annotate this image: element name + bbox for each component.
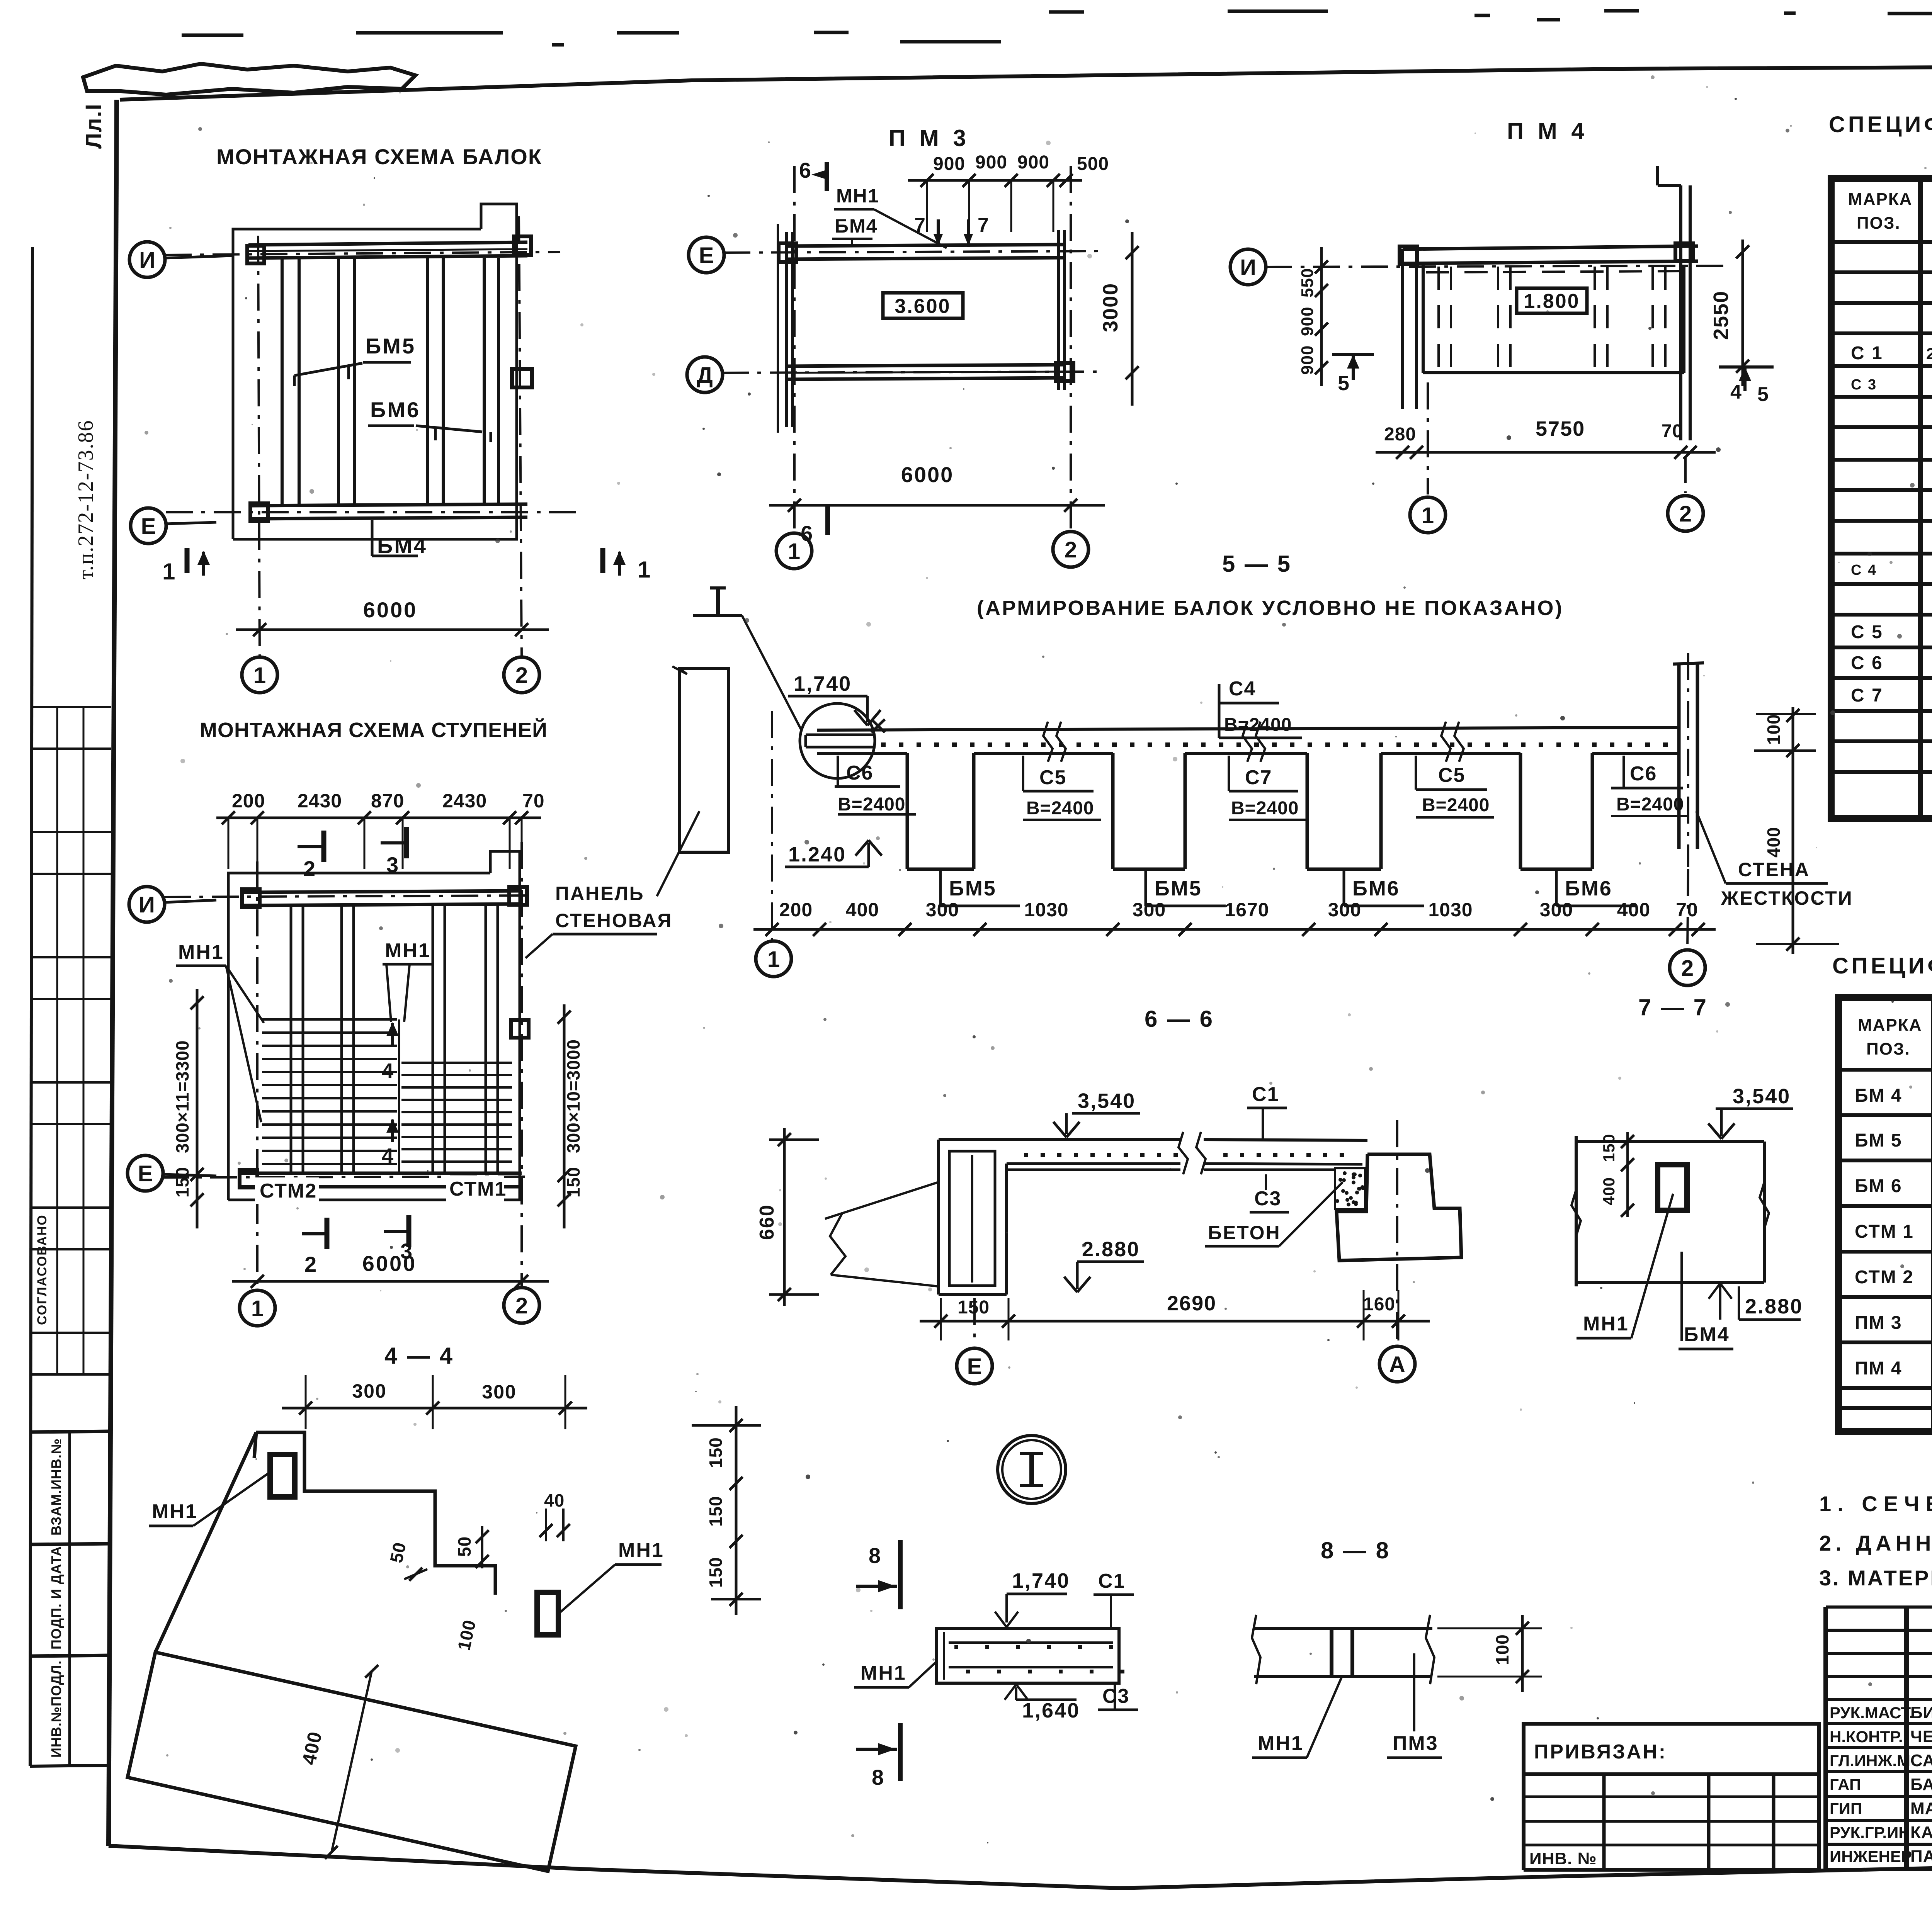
svg-text:3,540: 3,540 [1078,1089,1136,1113]
svg-text:БИКСОН: БИКСОН [1910,1703,1932,1722]
svg-text:300: 300 [926,899,959,921]
section mark 6 top ПМ3 [799,158,827,191]
svg-text:ЖЕСТКОСТИ: ЖЕСТКОСТИ [1721,887,1853,909]
svg-text:2: 2 [303,856,316,881]
dimension chain stairs top [216,790,545,869]
svg-text:900: 900 [933,154,965,174]
ПМ4 left dimension 550 900 900 [1298,247,1328,386]
svg-text:САМОВЕР: САМОВЕР [1910,1751,1932,1770]
svg-text:ВЗАМ.ИНВ.№: ВЗАМ.ИНВ.№ [48,1438,64,1536]
label МН1 right 4-4 [560,1539,664,1613]
svg-text:СТМ 2: СТМ 2 [1855,1267,1914,1288]
svg-text:РУК.ГР.ИН: РУК.ГР.ИН [1830,1823,1910,1842]
ПМ3 column marker left [779,243,796,262]
svg-text:400: 400 [1617,899,1650,921]
7-7 label МН1 [1577,1194,1673,1338]
label С3 6-6 [1250,1174,1289,1212]
ПМ3 dim 6000 bottom [769,462,1105,512]
axis 2 vertical beams plan [519,216,522,657]
svg-text:6: 6 [799,158,812,182]
svg-text:СТЕНОВАЯ: СТЕНОВАЯ [555,910,672,931]
label БМ6 no3 [1344,869,1424,906]
label МН1 mid stairs [383,939,432,1022]
stairs vertical beam pair c [433,905,445,1173]
dim 400 across slab [298,1665,378,1859]
svg-text:5750: 5750 [1536,417,1585,440]
svg-text:С5: С5 [1039,766,1066,789]
level 1.740 detail I [995,1569,1070,1627]
drawing frame bottom border [109,1846,1932,1888]
svg-text:900: 900 [1298,345,1317,375]
ПМ4 top beam [1403,246,1698,263]
svg-text:4: 4 [382,1059,394,1082]
svg-text:БМ6: БМ6 [1352,877,1400,900]
title 4-4 [384,1343,454,1369]
label БМ4 with bracket [372,520,427,558]
6-6 slab break [1179,1132,1206,1174]
stair steps left flight [262,1019,397,1164]
label СТМ2 [255,1177,319,1204]
svg-text:870: 870 [371,790,404,812]
title ПМ3 [889,125,970,151]
svg-text:1030: 1030 [1428,899,1473,921]
stairs column marker top-left [242,889,260,907]
label инв номер [1529,1849,1597,1868]
svg-text:100: 100 [1764,714,1784,745]
dim 100 8-8 [1437,1615,1542,1692]
section mark 6 bottom ПМ3 [801,506,828,545]
ПМ4 dashed rib lines [1439,267,1665,371]
svg-text:6000: 6000 [363,598,418,622]
stairs vertical beam pair b [342,905,354,1173]
beam БМ5 vertical pair 2 [338,258,354,506]
svg-text:И: И [139,248,155,273]
svg-text:МН1: МН1 [1583,1313,1629,1335]
ПМ3 top beam Е [786,245,1065,259]
svg-text:2: 2 [304,1252,317,1276]
svg-text:4: 4 [1730,381,1742,403]
svg-text:280: 280 [1384,424,1416,445]
section mark 1 left [162,548,210,584]
svg-text:900: 900 [1298,307,1317,336]
svg-text:БМ5: БМ5 [1155,877,1202,900]
svg-text:В=2400: В=2400 [1616,794,1684,815]
label МН1 ПМ3 [834,185,947,248]
drawing frame left border [109,100,117,1846]
column marker bottom-left [250,503,268,521]
dimension 6000 stairs [232,1251,549,1288]
svg-text:МОНТАЖНАЯ СХЕМА БАЛОК: МОНТАЖНАЯ СХЕМА БАЛОК [216,144,542,169]
label БМ6 with leader [368,398,491,442]
dimension 6000 beams plan [236,598,549,636]
svg-text:200: 200 [232,790,265,812]
detail I beam [936,1628,1119,1683]
svg-text:8: 8 [869,1543,881,1568]
dim 50 vertical [454,1526,489,1568]
beam bottom chord plan [251,504,527,519]
7-7 МН1 plate [1658,1165,1687,1210]
wall panel outline beams plan [233,204,517,539]
label С6 right [1611,756,1689,816]
grid circle 2 beams [504,657,539,693]
ПМ4 level 1.800 box [1517,288,1587,313]
wall panel left 5-5 [672,666,729,852]
svg-text:МН1: МН1 [178,941,224,963]
rib БМ6 no3 [1307,753,1381,869]
6-6 slab [939,1140,1367,1170]
svg-text:6 — 6: 6 — 6 [1145,1006,1214,1032]
svg-text:40: 40 [544,1490,565,1510]
svg-text:150: 150 [1600,1134,1618,1162]
svg-text:ПМ 4: ПМ 4 [1855,1358,1902,1379]
label С7 [1229,756,1307,820]
ПМ4 dim 2550 right [1709,240,1749,386]
title спецификация стали [1829,109,1932,137]
personnel table grid [1826,1607,1932,1870]
grid circle 2 ПМ4 [1668,456,1703,531]
svg-text:2.880: 2.880 [1745,1295,1803,1318]
svg-text:БМ4: БМ4 [835,215,878,237]
section 8-8 bar [1252,1615,1434,1684]
svg-text:200: 200 [779,899,813,921]
dim 660 6-6 [756,1128,819,1306]
svg-text:550: 550 [1298,268,1317,297]
grid circle И [129,242,232,277]
svg-text:7: 7 [914,214,926,236]
svg-text:1: 1 [638,557,651,583]
svg-text:С5: С5 [1438,764,1465,787]
7-7 inner dims 150 400 [1600,1132,1634,1217]
svg-text:С7: С7 [1245,766,1272,789]
title 7-7 [1638,994,1708,1020]
svg-text:ПОЗ.: ПОЗ. [1866,1040,1910,1058]
slab break marks 5-5 [1043,722,1464,762]
stairs top beam [243,891,522,905]
mesh hooks in detail circle [806,719,885,747]
svg-text:2: 2 [1065,537,1077,562]
beam БМ6 vertical pair 4 [484,258,498,506]
title монтажная схема ступеней [200,718,548,742]
section mark 4 lower [382,1119,399,1167]
svg-text:3000: 3000 [1099,283,1122,332]
note 1 [1819,1492,1932,1516]
section mark 3 top [381,827,406,877]
svg-text:т.п.272-12-73.86: т.п.272-12-73.86 [74,420,98,579]
axis Е horizontal [166,511,580,513]
rib БМ5 no2 [1113,753,1185,869]
steel spec table grid [1831,178,1932,819]
label С1 6-6 [1247,1083,1287,1140]
svg-text:СПЕЦИФИКАЦИЯ: СПЕЦИФИКАЦИЯ [1829,112,1932,137]
svg-text:2690: 2690 [1167,1292,1216,1315]
level 1.740 [788,672,881,725]
svg-text:П М 4: П М 4 [1507,118,1588,144]
steel table data rows [1851,250,1932,706]
section mark 5 left ПМ4 [1332,355,1374,395]
svg-text:ИНЖЕНЕР: ИНЖЕНЕР [1830,1847,1912,1865]
svg-text:1,740: 1,740 [1012,1569,1070,1592]
svg-text:ПМ 3: ПМ 3 [1855,1313,1902,1333]
dim 40 [539,1490,570,1541]
svg-text:ИНВ.№ПОДЛ.: ИНВ.№ПОДЛ. [48,1660,64,1758]
svg-text:2.880: 2.880 [1082,1238,1140,1261]
6-6 support block right [1337,1154,1461,1261]
label БМ5 no2 [1146,869,1226,906]
label панель стеновая [526,883,672,958]
grid circle Е stairs [128,1155,216,1191]
svg-text:6000: 6000 [362,1251,417,1276]
label С4 [1219,678,1302,738]
svg-text:50: 50 [454,1536,474,1557]
svg-text:300×11=3300: 300×11=3300 [172,1040,192,1153]
svg-text:400: 400 [846,899,879,921]
svg-text:70: 70 [1662,421,1683,442]
svg-text:БМ 4: БМ 4 [1855,1086,1902,1106]
beam БМ6 vertical pair 3 [427,258,443,506]
label МН1 left stairs [176,941,264,1122]
svg-text:РУК.МАСТ.: РУК.МАСТ. [1830,1704,1913,1722]
svg-text:СТМ 1: СТМ 1 [1855,1221,1914,1242]
label БМ5 with leader [294,334,416,386]
svg-text:Е: Е [138,1161,153,1186]
column marker top-right [514,236,531,255]
scan artifact blob top-left [83,64,415,95]
svg-text:С 5: С 5 [1851,622,1883,642]
personnel names [1830,1703,1932,1866]
grid circle 1 ПМ4 [1410,382,1446,533]
svg-text:7: 7 [978,214,990,236]
svg-text:П М 3: П М 3 [889,125,970,151]
slab 5-5 [817,727,1679,753]
7-7 level 3540 [1708,1085,1793,1139]
stairs column marker top-right [509,887,527,905]
ПМ3 left wall [778,224,793,433]
stamp label подп. и дата [32,1544,111,1656]
grid circle И stairs [129,887,216,922]
concrete table headers [1858,1016,1932,1058]
svg-text:Н.КОНТР.: Н.КОНТР. [1830,1728,1903,1746]
section marks 4 5 right ПМ4 [1719,367,1774,406]
axis 1 5-5 [756,711,791,977]
svg-text:БМ6: БМ6 [370,398,420,422]
svg-text:СТЕНА: СТЕНА [1738,859,1810,880]
ПМ4 dashed top [1426,271,1679,272]
svg-text:С6: С6 [1630,763,1657,785]
svg-text:150: 150 [706,1557,726,1588]
svg-text:МН1: МН1 [152,1500,198,1523]
svg-text:БМ4: БМ4 [1684,1323,1730,1346]
svg-text:1: 1 [1422,503,1434,528]
svg-text:В=2400: В=2400 [1231,798,1299,819]
stair steps right flight [401,1063,512,1174]
stamp label взам.инв.№ [32,1431,111,1544]
svg-text:1,740: 1,740 [794,672,852,695]
svg-text:С6: С6 [846,762,873,784]
detail I mark [693,588,801,729]
svg-text:400: 400 [1600,1177,1618,1205]
svg-text:ГИП: ГИП [1830,1799,1862,1818]
label панель стеновая 5-5 leader [657,811,699,896]
label МН1 left 4-4 [149,1472,270,1526]
note 3 [1819,1566,1932,1590]
svg-text:4 — 4: 4 — 4 [384,1343,454,1369]
title монтажная схема балок [216,144,542,169]
svg-text:БМ 6: БМ 6 [1855,1176,1902,1196]
rib БМ6 no4 [1520,753,1592,869]
rotated doc number т.п.272-12-73.86 [74,420,98,579]
svg-text:В=2400: В=2400 [1422,795,1490,815]
svg-text:БМ4: БМ4 [377,533,427,558]
svg-text:150: 150 [706,1496,726,1527]
svg-text:1: 1 [788,539,800,564]
svg-text:2. ДАННЫЙ ЛИСТ: 2. ДАННЫЙ ЛИСТ СМОТРИ СОВМЕСТНО С ЛИСТАМ… [1819,1531,1932,1555]
svg-text:ЧЕСОВА: ЧЕСОВА [1910,1727,1932,1746]
label БМ5 no1 [940,869,1020,906]
section mark 2 bottom [302,1218,327,1276]
svg-text:В=2400: В=2400 [1026,798,1094,819]
grid circle 2 stairs [504,1288,539,1323]
section 4-4 step profile [254,1432,495,1595]
title спецификация бетона [1832,950,1932,979]
level 1.640 detail I [1005,1684,1080,1722]
svg-text:СТМ1: СТМ1 [449,1178,507,1200]
grid circle 1 ПМ3 [776,533,812,569]
stairs axis Е [162,1177,533,1177]
svg-text:7 — 7: 7 — 7 [1638,994,1708,1020]
ПМ3 bottom beam Д [786,365,1065,379]
svg-text:3: 3 [386,853,399,877]
svg-text:300×10=3000: 300×10=3000 [563,1039,583,1153]
svg-text:ГЛ.ИНЖ.М: ГЛ.ИНЖ.М [1830,1752,1910,1770]
svg-text:900: 900 [975,152,1007,173]
note 2 [1819,1531,1932,1555]
section mark 8 top [856,1540,900,1609]
ПМ3 right wall [1059,230,1065,390]
МН1 plate left 4-4 [270,1454,295,1497]
svg-text:С3: С3 [1102,1685,1129,1707]
svg-text:100: 100 [1492,1634,1512,1665]
svg-text:МН1: МН1 [385,939,431,962]
svg-text:8 — 8: 8 — 8 [1321,1537,1390,1563]
svg-text:СТМ2: СТМ2 [260,1180,317,1202]
svg-text:400: 400 [1764,827,1784,858]
ПМ4 axis И [1265,266,1731,267]
ПМ3 top dimension chain [908,152,1109,232]
svg-text:МАРКА: МАРКА [1858,1016,1922,1035]
dim 100 400 right 5-5 [1754,707,1839,954]
svg-text:В=2400: В=2400 [1224,715,1292,735]
svg-text:2: 2 [515,663,528,688]
svg-text:150: 150 [563,1167,583,1198]
svg-text:С1: С1 [1252,1083,1279,1106]
grid circle 1 stairs [240,1290,275,1326]
ПМ3 axis 1 [793,166,796,532]
grid circle Е 6-6 [957,1298,992,1384]
stairs column marker bottom-left [240,1170,257,1187]
svg-text:МАРКА: МАРКА [1848,190,1912,209]
stairs axis И [164,895,533,897]
slab mesh dots 5-5 [881,742,1668,747]
svg-text:БАРЫШЕВА: БАРЫШЕВА [1910,1775,1932,1794]
svg-text:3,540: 3,540 [1733,1085,1791,1108]
svg-text:160: 160 [1363,1294,1395,1315]
svg-text:150: 150 [172,1167,192,1198]
svg-text:300: 300 [1328,899,1361,921]
detail I circle symbol [998,1436,1066,1503]
svg-text:Е: Е [699,243,714,268]
dim 100 [454,1618,480,1652]
7-7 label БМ4 [1679,1252,1733,1349]
grid circle 2 ПМ3 [1053,532,1088,567]
svg-text:Лл.I: Лл.I [81,103,106,149]
svg-text:3.600: 3.600 [895,295,951,318]
grid circle И ПМ4 [1230,249,1266,285]
svg-text:1.240: 1.240 [788,843,846,866]
svg-text:2: 2 [1681,956,1694,981]
7-7 level 2880 [1709,1283,1803,1320]
stairs right vertical dimension [558,1004,583,1228]
6-6 break squiggle left [825,1182,939,1286]
rotated sheet id Лл.I [81,103,106,149]
svg-text:1030: 1030 [1024,899,1068,921]
ПМ4 bottom dimension [1376,417,1716,459]
svg-text:И: И [139,892,155,917]
section 4-4 right dimension 150x3 [692,1406,761,1615]
title ПМ4 [1507,118,1588,144]
svg-text:300: 300 [482,1381,516,1403]
section 4-4 top dimension [282,1375,587,1429]
svg-text:Е: Е [141,514,156,539]
svg-text:660: 660 [756,1204,778,1240]
svg-text:272-12-73.86-АС1.И2.04.00: 272-12-73.86-АС1.И2.04.00 [1926,345,1932,363]
svg-text:С1: С1 [1098,1570,1125,1592]
svg-text:500: 500 [1077,154,1109,174]
stairs left vertical dimension [172,989,204,1228]
ПМ4 left wall [1403,249,1417,409]
grid circle А 6-6 [1379,1120,1415,1382]
grid circle Е ПМ3 [689,237,724,273]
ПМ4 column marker right [1675,243,1693,261]
section marks 7 on beam ПМ3 [914,214,990,247]
stairs plan outline [228,851,520,1200]
rib БМ5 no1 [907,753,974,869]
stamp label инв.№подл. [32,1655,111,1765]
svg-text:ПМ3: ПМ3 [1393,1732,1439,1755]
axis 1 vertical beams plan [258,236,260,657]
svg-text:МОНТАЖНАЯ СХЕМА СТУПЕНЕЙ: МОНТАЖНАЯ СХЕМА СТУПЕНЕЙ [200,718,548,742]
label бетон [1205,1182,1343,1246]
stairs axis 2 [520,842,523,1288]
drawing frame top border [120,63,1932,100]
label С5 no1 [1023,756,1101,820]
detail I beam studs [954,1645,1124,1673]
svg-text:70: 70 [522,790,545,812]
svg-text:(АРМИРОВАНИЕ БАЛОК УСЛОВ: (АРМИРОВАНИЕ БАЛОК УСЛОВНО НЕ ПОКАЗАНО) [977,596,1564,620]
svg-text:1670: 1670 [1225,899,1269,921]
ПМ3 axis Д [722,372,1101,373]
label ПМ3 8-8 [1387,1653,1442,1758]
stairs vertical beam pair a [291,905,303,1173]
svg-text:Д: Д [697,363,713,388]
level 1.240 [785,840,882,867]
label С1 detail I [1094,1570,1134,1628]
svg-text:5 — 5: 5 — 5 [1222,551,1292,577]
ПМ3 axis 2 [1070,166,1072,530]
label БМ6 no4 [1556,869,1636,906]
stamp column outer line [30,247,111,1766]
svg-text:БМ5: БМ5 [366,334,416,358]
svg-text:6: 6 [801,521,813,545]
